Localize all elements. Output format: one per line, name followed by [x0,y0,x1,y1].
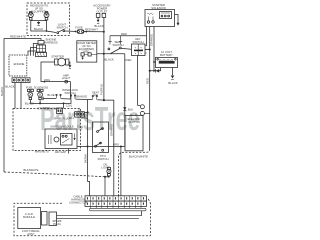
interlock switch 1 [57,95,61,98]
svg-text:BK/WH: BK/WH [83,154,87,163]
wire relay leg 1 [146,27,148,46]
interlock switch 2 [71,96,75,99]
headlight lamp left [28,12,33,20]
wire relay leg 3 [153,27,155,71]
svg-text:FUEL SOLENOID: FUEL SOLENOID [26,85,48,89]
engine dashed box lower [13,109,81,151]
svg-text:BLACK: BLACK [94,24,103,28]
hour meter box [77,41,97,62]
pto clutch box [125,114,143,151]
svg-text:STARTER: STARTER [51,54,64,58]
svg-text:SW: SW [93,93,98,97]
svg-text:BLACK: BLACK [34,27,43,31]
svg-text:STARTER SOL.: STARTER SOL. [38,107,58,111]
svg-text:SPARK PLUG: SPARK PLUG [53,117,69,121]
bottom dashed enclosure [14,198,150,235]
wire outlet main vertical [103,17,105,100]
svg-text:SWITCH: SWITCH [132,40,143,44]
oil lamp [107,167,111,176]
wire coil junction [84,111,87,113]
svg-text:WIRE: WIRE [81,116,88,120]
svg-text:BLK/WHITE: BLK/WHITE [23,168,38,172]
seat switch contacts [108,48,110,50]
interlock switch 3 [93,97,97,100]
svg-text:COIL: COIL [66,103,73,107]
svg-text:ORANGE: ORANGE [110,124,114,136]
relay box K1 [145,10,175,27]
node hourmeter junction [103,53,105,55]
wire starter left branch [41,62,71,82]
diode D1 [123,107,126,110]
ground battery [171,76,174,79]
svg-text:ENGINE: ENGINE [14,62,25,66]
svg-text:CLUTCH: CLUTCH [128,120,139,124]
svg-text:BLACK/WHITE: BLACK/WHITE [129,155,148,159]
fnr module box [18,208,41,229]
module twin leads [57,216,142,219]
seat switch blade [111,49,120,54]
module connector b [49,212,57,226]
wire left feed [4,39,41,41]
wire x113.8 main drop [104,100,114,196]
svg-text:PLUG: PLUG [53,222,61,226]
wire ammeter drop [70,82,72,100]
wire engine leads [14,83,16,109]
svg-text:ORG: ORG [44,78,50,82]
light switch SW1 [57,29,65,33]
engine connector stack [36,41,47,57]
pto switch box [93,122,109,153]
svg-text:FUSE: FUSE [75,25,83,29]
svg-text:RED: RED [146,78,150,84]
fuse F1 [77,30,84,34]
svg-text:COIL: COIL [77,125,84,129]
battery ground wire [172,68,174,76]
engine dashed box upper [9,55,27,76]
svg-text:RED: RED [126,58,132,62]
connector strip [85,196,147,207]
wire lamp bus [105,176,109,178]
bar pedestal wire [141,211,143,216]
wire fuse to outlet node [84,31,104,33]
svg-text:SWITCH: SWITCH [64,91,75,95]
wire relay output arrow [175,15,179,24]
svg-text:SWITCH: SWITCH [97,157,108,161]
svg-text:MODULE: MODULE [23,215,35,219]
ammeter A1 [65,80,68,83]
wire spark plug stub [68,149,70,154]
seat switch pins [108,36,111,45]
outlet ground [97,17,99,19]
connector strip pin numbers [87,197,144,205]
svg-text:MAGNETO: MAGNETO [35,149,50,153]
svg-text:LIGHT: LIGHT [101,165,110,169]
wire contact to key switch [121,48,131,49]
wire lamp outer bus [31,21,56,33]
svg-text:SWITCH: SWITCH [112,43,123,47]
svg-text:OUTLET: OUTLET [96,9,107,13]
key switch KS [132,44,147,56]
headlights dashed enclosure [27,3,70,36]
svg-text:ORG: ORG [113,142,119,146]
tiny text labels [5,3,177,236]
fuel solenoid lamps [27,89,43,99]
connector tick legs [91,206,141,208]
svg-text:LIGHT: LIGHT [62,76,71,80]
svg-text:BLACK: BLACK [168,81,177,85]
svg-text:ASSY: ASSY [27,232,35,236]
svg-text:BLACK: BLACK [104,58,113,62]
wire lamp drops [104,177,106,196]
svg-text:PURPLE: PURPLE [100,84,104,95]
starter M1 [55,58,69,66]
svg-text:HARNESS: HARNESS [44,41,58,45]
magneto module box [45,129,77,149]
wire starter to ground [69,62,70,65]
connector pair CP [140,105,149,116]
wire battery positive [154,61,156,63]
svg-text:BLUE: BLUE [47,93,54,97]
node fuse junction [103,31,105,33]
svg-text:AIR GAP: AIR GAP [55,150,66,154]
svg-text:RED: RED [121,32,127,36]
svg-text:KILL: KILL [69,116,75,120]
wire seat row [97,53,125,55]
row end connector [42,97,43,101]
wire coil riser [88,100,90,196]
wire relay leg 2 [149,27,151,71]
wire solenoid bus [30,99,71,108]
wire x121 drop [120,147,122,196]
wire lamp inner bus [31,19,47,22]
svg-text:SOLENOID: SOLENOID [151,6,165,10]
wire key bottom to connector pair [138,56,141,106]
wire key to relay leg2 [145,49,150,51]
svg-text:ORANGE: ORANGE [150,34,154,46]
ground headlights [38,21,40,22]
wire harness steps [33,44,38,56]
svg-text:EQUIPPED): EQUIPPED) [31,9,46,13]
svg-text:RED/WHITE: RED/WHITE [10,35,26,39]
diode D2 [156,69,159,73]
wire red to relay [110,35,147,37]
engine connector [12,78,30,83]
connector mounting bar [90,208,147,211]
harness wire right vertical [149,71,151,149]
battery B1 [156,58,178,68]
svg-text:RED: RED [84,49,90,53]
ignition coil box [75,112,85,117]
svg-text:IGNITION MODULE: IGNITION MODULE [50,125,74,129]
accessory outlet pins [96,13,100,17]
wire module output [77,146,125,148]
rotated wire labels [0,34,153,163]
wire purple diode branch [124,54,126,147]
headlight lamp right [44,12,49,20]
module connector a [42,212,48,226]
wire switch to fuse [65,30,75,32]
svg-text:ORANGE: ORANGE [75,95,87,99]
coil small box [57,108,63,114]
svg-text:BLACK: BLACK [5,85,14,89]
svg-text:BLK: BLK [128,107,133,111]
svg-text:SWITCH: SWITCH [56,25,67,29]
svg-text:CONNECTOR: CONNECTOR [69,200,87,204]
svg-text:BLACK: BLACK [0,87,4,96]
harness dashed run [119,149,150,196]
svg-text:BATTERY: BATTERY [160,53,173,57]
interlock wire row [43,98,104,100]
svg-text:BLACK: BLACK [25,101,34,105]
wire battery negative [150,68,161,71]
wire black/white dashed [4,172,105,177]
